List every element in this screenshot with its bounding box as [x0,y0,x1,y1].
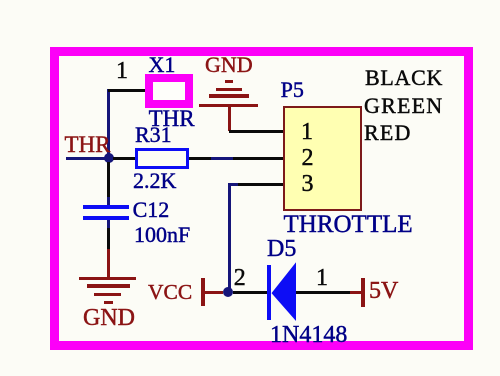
wire (blue stub above C12) [107,197,110,205]
wire (blue stub below C12) [107,220,110,228]
pin number 3 of P5 [302,172,314,196]
pin number 2 of P5 [302,146,314,170]
5V port bar [361,278,365,307]
label GREEN [364,95,443,117]
label D5 [267,237,296,261]
wire (black, node down to C12) [107,162,110,197]
capacitor C12 plate 1 [83,205,130,210]
pin number 1 of P5 [301,120,313,144]
wire (blue vertical from X1 corner to THR node) [107,89,110,160]
wire (black, diode to 5V) [296,291,350,294]
border frame [50,47,473,350]
label P5 [281,79,304,101]
wire (black, C12 lower lead) [107,228,110,249]
ground symbol (top, bar stack) [225,80,234,83]
label THR under X1 [149,107,195,130]
label BLACK [365,67,443,89]
wire (black pin lead into X1) [108,89,153,92]
connector P5 (yellow box) [283,106,362,212]
wire (black pin 2 lead of P5) [233,157,283,160]
resistor R31 (blue rect) [135,148,190,169]
wire (black, node to R31) [113,157,135,160]
pin number 1 label (diode) [316,266,328,290]
wire (blue from THR to node) [66,157,106,160]
node junction dot THR [104,153,114,163]
wire (black, node to diode cathode) [233,291,268,294]
label C12 [133,199,170,221]
wire (blue horizontal at pin 3) [228,183,240,186]
wire (black pin 3 lead of P5) [238,183,283,186]
ground symbol (bottom, earth) [79,277,136,281]
label RED [364,122,412,144]
label R31 [135,124,172,146]
label THR (left net label) [65,133,111,156]
wire (dark red into 5V bar) [350,291,361,294]
VCC port bar [201,278,206,306]
label 1N4148 [270,323,347,347]
wire (black, ground to P5 pin 1) [229,130,283,133]
label GND (bottom) [83,306,135,330]
label 2.2K [133,170,176,192]
pin number 2 label [234,266,246,290]
ground stem (dark red) [107,249,110,277]
label VCC [148,282,192,304]
wire (blue segment to pin 2) [211,157,233,160]
capacitor C12 plate 2 [83,216,130,221]
label THROTTLE [284,212,413,237]
label 100nF [134,224,190,246]
node junction dot 2 [223,287,233,297]
wire (dark red, VCC to node) [205,291,223,294]
wire (black, R31 right lead) [189,157,211,160]
pin number 1 of X1 [116,59,128,83]
wire (blue vertical pin 3 of P5 down to node) [228,183,231,293]
component X1 (jumper, magenta box) [145,74,193,108]
label X1 [149,54,176,76]
diode D5 cathode bar [267,265,271,321]
label GND (top power ground) [205,54,253,76]
diode D5 triangle [271,262,297,322]
label 5V [369,279,398,303]
